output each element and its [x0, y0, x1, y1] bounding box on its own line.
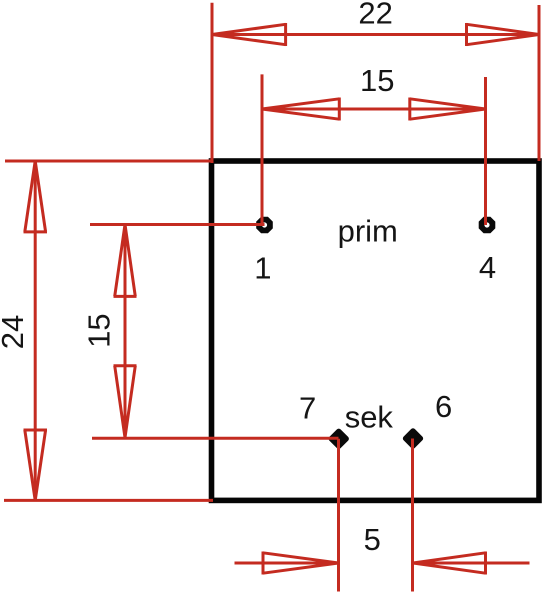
value label 15 top — [360, 63, 394, 98]
svg-text:5: 5 — [364, 522, 381, 557]
wire: extension line top of dimension 24 — [5, 160, 213, 163]
pin number 4 — [479, 250, 496, 285]
arrow right of dimension 22 — [467, 23, 540, 46]
net label prim — [338, 213, 398, 248]
arrow right of dimension 5 pointing left — [413, 552, 486, 575]
transformer body outline — [212, 161, 540, 500]
pin number 7 — [299, 391, 316, 426]
value label 24 (rotated) — [0, 315, 30, 349]
arrow right of dimension 15 top — [410, 98, 486, 121]
wire: dimension line 15 top — [262, 108, 486, 111]
pin number 6 — [435, 389, 452, 424]
pin number 1 — [254, 251, 271, 286]
arrow bottom of dimension 24 — [24, 430, 48, 500]
pin 6 pad — [405, 431, 420, 446]
arrow left of dimension 15 top — [262, 98, 339, 121]
arrow left of dimension 5 pointing right — [263, 552, 339, 575]
svg-text:prim: prim — [338, 213, 398, 248]
wire: extension line bottom of dimension 24 — [4, 499, 213, 502]
wire: extension line right of dimension 22 — [538, 5, 541, 161]
wire: dimension line 5 left segment — [235, 562, 339, 565]
svg-text:15: 15 — [360, 63, 394, 98]
wire: dimension line 5 right segment — [413, 562, 530, 565]
wire: dimension line 15 left — [124, 225, 127, 438]
wire: extension line top of dimension 15 left — [90, 223, 265, 226]
svg-text:1: 1 — [254, 251, 271, 286]
wire: dimension line 22 — [212, 33, 539, 36]
svg-text:4: 4 — [479, 250, 496, 285]
value label 15 left (rotated) — [81, 313, 116, 347]
svg-text:sek: sek — [345, 399, 394, 434]
wire: dimension line 24 — [34, 161, 37, 500]
pin 7 pad — [331, 431, 346, 446]
value label 5 — [364, 522, 381, 557]
value label 22 — [358, 0, 392, 30]
svg-text:24: 24 — [0, 315, 30, 349]
arrow top of dimension 15 left — [114, 225, 137, 297]
svg-text:7: 7 — [299, 391, 316, 426]
wire: extension line from pin 6 down — [411, 439, 414, 592]
arrow bottom of dimension 15 left — [114, 366, 137, 438]
wire: extension line from pin 7 down — [337, 439, 340, 592]
svg-text:22: 22 — [358, 0, 392, 30]
pin 4 pad — [479, 217, 496, 234]
arrow top of dimension 24 — [24, 161, 48, 232]
svg-text:15: 15 — [81, 313, 116, 347]
wire: extension line left of dimension 22 — [211, 3, 214, 163]
wire: extension line bottom of dimension 15 left — [92, 437, 339, 440]
arrow left of dimension 22 — [212, 23, 286, 46]
wire: extension line right of dimension 15 top — [484, 77, 487, 225]
net label sek — [345, 399, 394, 434]
pin 1 pad — [256, 217, 273, 234]
svg-text:6: 6 — [435, 389, 452, 424]
wire: extension line left of dimension 15 top — [261, 74, 264, 225]
